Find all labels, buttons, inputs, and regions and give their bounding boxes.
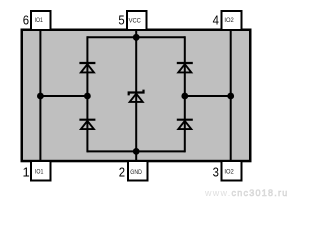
svg-text:IO2: IO2 bbox=[224, 169, 234, 176]
wire IO1 mid branch bbox=[40, 95, 87, 97]
wire VCC stub from pin 5 bbox=[135, 30, 137, 41]
svg-text:GND: GND bbox=[130, 169, 142, 176]
svg-text:4: 4 bbox=[213, 12, 219, 27]
wire GND bottom rail bbox=[87, 150, 184, 152]
svg-text:IO1: IO1 bbox=[35, 17, 44, 24]
svg-text:3: 3 bbox=[213, 164, 219, 179]
pin 1 box bbox=[31, 161, 51, 181]
svg-text:1: 1 bbox=[22, 164, 29, 179]
diode D3 upper right bbox=[177, 63, 193, 72]
wire IO2 vertical (pin 4 to pin 3) bbox=[230, 30, 232, 161]
zener diode Z1 center bbox=[129, 90, 144, 102]
wire VCC top rail bbox=[87, 36, 184, 38]
pin 2 box bbox=[128, 161, 148, 181]
svg-text:2: 2 bbox=[119, 164, 125, 179]
wire GND stub to pin 2 bbox=[135, 148, 137, 161]
junction node right column mid bbox=[181, 93, 188, 100]
junction node IO1 line bbox=[37, 93, 44, 100]
pin 3 box bbox=[222, 161, 242, 181]
pin 6 box bbox=[31, 11, 51, 30]
junction node VCC/top rail bbox=[133, 34, 140, 41]
wire right diode column bbox=[184, 36, 186, 152]
svg-text:IO1: IO1 bbox=[35, 168, 44, 175]
junction node left column mid bbox=[84, 93, 91, 100]
diode D4 lower right bbox=[177, 120, 193, 129]
wire IO1 vertical (pin 6 to pin 1) bbox=[39, 30, 41, 161]
svg-text:www.cnc3018.ru: www.cnc3018.ru bbox=[204, 188, 289, 198]
wire left diode column bbox=[86, 36, 88, 152]
pin 4 box bbox=[222, 11, 242, 30]
wire center zener column bbox=[135, 37, 137, 151]
IC body U1 bbox=[22, 30, 251, 161]
pin 5 box bbox=[127, 11, 147, 30]
diode D2 lower left bbox=[79, 120, 95, 129]
wire IO2 mid branch bbox=[185, 95, 231, 97]
svg-text:5: 5 bbox=[118, 12, 124, 27]
diode D1 upper left bbox=[79, 63, 95, 72]
svg-text:6: 6 bbox=[23, 12, 29, 27]
svg-text:VCC: VCC bbox=[129, 18, 142, 25]
junction node IO2 line bbox=[227, 93, 234, 100]
svg-text:IO2: IO2 bbox=[224, 17, 234, 24]
junction node GND/bottom rail bbox=[133, 148, 140, 155]
